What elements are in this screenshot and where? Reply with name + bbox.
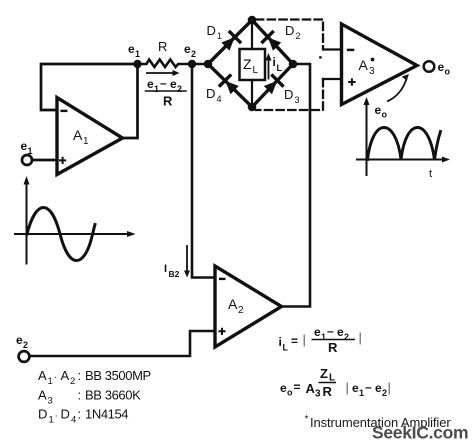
ink speck node: [319, 56, 322, 59]
svg-text:BB 3660K: BB 3660K: [85, 388, 141, 403]
svg-text:e: e: [337, 325, 344, 339]
label IB2: [164, 263, 180, 279]
svg-text:o: o: [382, 110, 388, 120]
left sine graph: vertical axis: [26, 183, 28, 264]
diode bridge diamond edges: [208, 20, 293, 107]
svg-text:D: D: [61, 407, 70, 422]
svg-text:1: 1: [49, 415, 54, 426]
wire e2 node down to A2 - input: [192, 64, 215, 278]
svg-text:D: D: [285, 23, 294, 38]
label e2 at terminal: [16, 333, 28, 350]
svg-text:A: A: [73, 127, 83, 143]
label fraction (e1-e2)/R: [147, 76, 182, 109]
svg-text:2: 2: [382, 388, 387, 398]
label A3 with asterisk: [359, 57, 376, 77]
svg-text:2: 2: [191, 49, 196, 59]
diode D4: [220, 76, 239, 95]
arrow to eo output: [388, 79, 407, 101]
svg-text:e: e: [375, 381, 382, 395]
svg-text:R: R: [163, 94, 173, 109]
label e2 at node: [184, 42, 196, 59]
svg-text:1: 1: [217, 31, 222, 41]
wire stub to A3 - input: [323, 48, 342, 50]
diode D1: [220, 32, 239, 51]
current arrow (e1-e2)/R: [147, 72, 174, 74]
svg-text:=: =: [291, 334, 298, 348]
node bridge left vertex: [204, 60, 213, 69]
formula eo = A3 ZL/R |e1-e2|: [280, 366, 391, 400]
svg-text:R: R: [158, 39, 167, 54]
label minus A3: [347, 49, 355, 52]
svg-text:o: o: [287, 388, 293, 398]
svg-text:o: o: [445, 67, 451, 77]
svg-text:|: |: [346, 380, 349, 395]
label D2: [285, 23, 301, 41]
svg-text:–: –: [365, 380, 372, 394]
svg-text:A: A: [38, 368, 47, 383]
label plus A1: [59, 157, 66, 164]
svg-text:1: 1: [28, 146, 33, 156]
left sine graph: horizontal axis: [15, 233, 129, 235]
dashed wire bridge top to A3 - input: [256, 20, 323, 49]
wire e2 terminal to A2 + input: [30, 331, 215, 356]
svg-text:e: e: [16, 333, 23, 347]
svg-text:L: L: [283, 343, 289, 353]
svg-text:3: 3: [48, 396, 53, 407]
node e1: [133, 60, 141, 68]
label A1: [73, 127, 89, 147]
node bridge right vertex: [289, 60, 298, 69]
label eo at output: [438, 60, 451, 77]
svg-text:2: 2: [344, 332, 349, 342]
wire ZL to bottom vertex: [251, 80, 253, 107]
svg-text:4: 4: [71, 415, 76, 426]
label e1 at node: [128, 42, 140, 59]
svg-text:3: 3: [315, 389, 321, 400]
svg-text:B2: B2: [169, 269, 180, 279]
current arrow iL: [268, 58, 270, 79]
svg-text:D: D: [38, 407, 47, 422]
svg-text:e: e: [21, 139, 28, 153]
formula bar (e1-e2)/R: [312, 339, 356, 341]
svg-text:|: |: [388, 380, 391, 395]
label e1 at terminal: [21, 139, 33, 156]
svg-text:e: e: [280, 381, 287, 395]
formula iL = |(e1-e2)/R|: [279, 324, 362, 355]
svg-text:4: 4: [217, 94, 222, 104]
label D3: [284, 87, 300, 105]
parts list line A1 A2: [38, 368, 151, 387]
svg-text:·: ·: [55, 411, 58, 422]
svg-text:e: e: [375, 103, 382, 117]
waveform rectified humps: [368, 128, 441, 160]
svg-text:2: 2: [23, 340, 28, 350]
svg-text::: :: [78, 388, 81, 403]
svg-text:|: |: [303, 332, 306, 347]
input terminal e1: [22, 155, 32, 165]
svg-text:BB 3500MP: BB 3500MP: [85, 368, 151, 383]
svg-text:3: 3: [295, 95, 300, 105]
svg-text:2: 2: [238, 305, 244, 316]
wire e1 terminal to A1 + input: [32, 159, 57, 162]
formula bar ZL/R: [319, 382, 337, 384]
svg-text:Z: Z: [243, 56, 252, 72]
svg-text:Z: Z: [320, 366, 328, 381]
svg-text:R: R: [328, 340, 338, 355]
svg-text:*: *: [305, 414, 309, 425]
svg-text:e: e: [314, 325, 321, 339]
wire A1 output to node e1: [123, 64, 138, 138]
parts list line A3: [38, 388, 141, 407]
label D4: [206, 86, 222, 104]
label minus A1: [60, 110, 67, 112]
op-amp A3: [342, 24, 418, 105]
svg-text:D: D: [207, 23, 216, 38]
svg-text:D: D: [206, 86, 215, 101]
node bridge bottom vertex: [248, 103, 257, 112]
svg-text:1N4154: 1N4154: [85, 407, 128, 422]
svg-text:SeekIC.com: SeekIC.com: [372, 423, 468, 443]
svg-text:e: e: [184, 42, 191, 56]
wire A2 output up to bridge right vertex: [282, 64, 311, 307]
svg-text:2: 2: [296, 31, 301, 41]
svg-text:A: A: [38, 388, 47, 403]
svg-text:1: 1: [48, 376, 53, 387]
svg-text:i: i: [273, 55, 276, 69]
svg-text:e: e: [147, 77, 154, 91]
svg-text:L: L: [253, 65, 259, 76]
label plus A3: [348, 78, 355, 85]
svg-text:L: L: [277, 63, 283, 73]
wire top rail with resistor R: [138, 60, 209, 68]
svg-text:3: 3: [369, 66, 375, 77]
label D1: [207, 23, 223, 41]
waveform graph output: horizontal axis: [357, 159, 444, 161]
node bridge top vertex: [248, 16, 257, 25]
svg-text:2: 2: [177, 84, 182, 94]
label iL: [273, 55, 283, 73]
wire stub to A3 + input: [323, 78, 342, 80]
footnote instrumentation amplifier: [305, 414, 452, 430]
sine wave e1: [27, 208, 95, 261]
label plus A2: [218, 328, 225, 335]
svg-text:1: 1: [321, 332, 326, 342]
fraction bar (e1-e2)/R: [146, 90, 187, 92]
wire feedback loop of A1: [41, 64, 138, 110]
output terminal eo: [424, 61, 435, 72]
svg-text:e: e: [170, 77, 177, 91]
node e2: [188, 60, 196, 68]
diode D3: [263, 76, 282, 95]
svg-text:I: I: [164, 263, 167, 275]
wire top vertex to ZL: [251, 20, 253, 49]
dashed wire bridge bottom to A3 + input: [256, 79, 323, 110]
svg-text:·: ·: [54, 372, 57, 383]
label minus A2: [219, 278, 226, 280]
svg-text:e: e: [128, 42, 135, 56]
svg-text:A: A: [359, 57, 369, 73]
svg-text:e: e: [352, 381, 359, 395]
load ZL box: [240, 49, 266, 80]
svg-text::: :: [78, 407, 81, 422]
svg-text:|: |: [359, 330, 362, 345]
svg-text:=: =: [294, 380, 301, 394]
label ZL: [243, 56, 259, 76]
waveform graph output: vertical axis: [366, 103, 368, 175]
op-amp A1: [57, 98, 123, 175]
label A2: [228, 296, 244, 316]
svg-text:A: A: [306, 381, 316, 396]
svg-text:–: –: [327, 324, 334, 338]
svg-text:i: i: [279, 335, 282, 349]
svg-text:1: 1: [359, 388, 364, 398]
svg-text:1: 1: [154, 84, 159, 94]
svg-text:t: t: [429, 168, 432, 180]
svg-text:A: A: [228, 296, 238, 312]
svg-text:R: R: [323, 384, 333, 399]
svg-text:e: e: [438, 60, 445, 74]
parts list line D1 D4: [38, 407, 128, 426]
diode D2: [263, 32, 282, 51]
svg-text:1: 1: [83, 136, 89, 147]
label eo at waveform arrow: [375, 103, 388, 120]
svg-text:1: 1: [135, 49, 140, 59]
svg-text:–: –: [160, 76, 167, 90]
svg-text::: :: [78, 368, 81, 383]
svg-text:2: 2: [70, 376, 75, 387]
svg-text:A: A: [61, 368, 70, 383]
current arrow IB2: [186, 246, 188, 272]
op-amp A2: [215, 266, 282, 347]
input terminal e2: [19, 351, 30, 362]
svg-text:D: D: [284, 87, 293, 102]
